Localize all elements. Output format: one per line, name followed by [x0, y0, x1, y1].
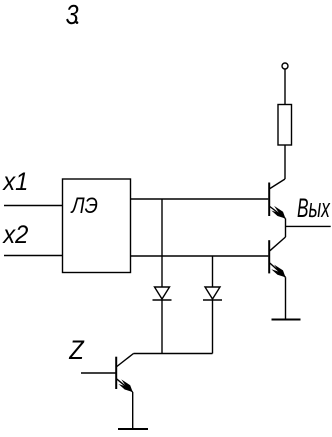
svg-text:x1: x1 — [2, 168, 28, 196]
svg-text:x2: x2 — [2, 221, 28, 249]
svg-text:3: 3 — [66, 0, 80, 30]
svg-text:Z: Z — [68, 336, 85, 366]
svg-text:Вых: Вых — [297, 192, 330, 223]
svg-text:ЛЭ: ЛЭ — [70, 194, 98, 219]
